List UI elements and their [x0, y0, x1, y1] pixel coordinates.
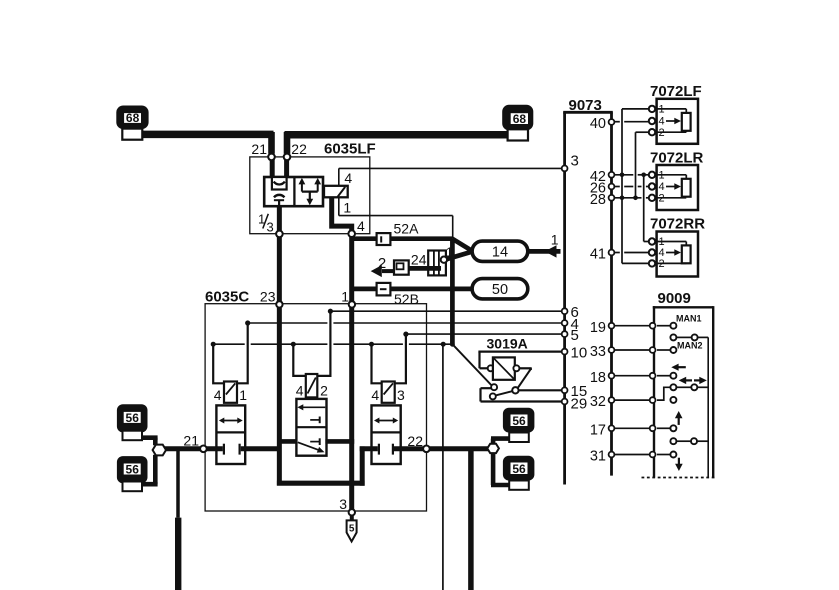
pill 14	[472, 241, 528, 261]
svg-text:MAN2: MAN2	[677, 341, 703, 351]
junction dots 42/28	[620, 173, 646, 201]
wire 26 to 7072LR pin4	[614, 186, 649, 188]
relay 3019A	[452, 336, 561, 402]
9073 pin 15	[562, 383, 587, 400]
arrow 1 (right of pill 14)	[528, 232, 561, 258]
svg-text:23: 23	[260, 289, 276, 305]
valve V2 body	[296, 399, 326, 456]
9009 common row 387	[670, 384, 708, 390]
svg-text:1: 1	[239, 387, 247, 403]
Y split to pill 14	[445, 239, 473, 260]
svg-text:21: 21	[183, 432, 199, 448]
wire 68L to node 21	[142, 132, 273, 154]
svg-text:4: 4	[296, 383, 304, 399]
9073 pin 41	[590, 247, 615, 263]
main bus V3 to right hex	[394, 446, 489, 451]
svg-text:17: 17	[590, 422, 606, 438]
9073 pin 3	[562, 153, 579, 172]
wire to pin 5 (y334)	[406, 333, 562, 335]
svg-text:14: 14	[492, 245, 508, 261]
box 6035C	[205, 289, 427, 512]
svg-text:4: 4	[659, 116, 665, 128]
thick vertical node1/3 to node 23	[277, 237, 282, 301]
svg-text:56: 56	[512, 462, 526, 476]
sensor 7072LF	[649, 83, 702, 144]
svg-text:6035C: 6035C	[205, 289, 249, 306]
svg-text:22: 22	[291, 141, 307, 157]
sensor 7072LR	[649, 150, 704, 211]
svg-text:6035LF: 6035LF	[324, 141, 376, 158]
wire to pin 6 (y311)	[330, 310, 561, 312]
exhaust arrow 5	[347, 516, 357, 542]
9009 common row 441	[670, 438, 708, 444]
svg-text:4: 4	[357, 218, 365, 234]
wire common y344	[213, 343, 452, 345]
svg-text:50: 50	[492, 282, 508, 298]
9009 double arrows row 380	[679, 377, 707, 384]
svg-text:56: 56	[126, 411, 140, 425]
9009 row 17	[614, 425, 676, 431]
thick vertical node4 down through node1 to node3	[349, 237, 354, 509]
node 22 (bus)	[407, 433, 429, 452]
svg-text:1: 1	[446, 245, 453, 260]
56 right elbows	[491, 439, 510, 485]
9073 pin 19	[590, 320, 615, 336]
svg-text:32: 32	[590, 394, 606, 410]
svg-text:5: 5	[349, 524, 355, 535]
9009 row 32 with jog	[614, 387, 676, 403]
wire to pin 4 (y323)	[248, 322, 562, 324]
wire contact pin1 to node 4	[332, 197, 352, 231]
wire node22 to pressure switch	[284, 159, 289, 178]
bus 52A	[352, 221, 453, 246]
plug connector	[394, 260, 409, 274]
box 6035LF	[250, 141, 376, 234]
svg-text:40: 40	[590, 116, 606, 132]
svg-text:4: 4	[371, 387, 379, 403]
9009 row 33 / MAN2	[614, 341, 702, 354]
connector 68 (left)	[116, 106, 148, 140]
wire 28 to 7072LR pin2	[614, 197, 649, 199]
valve V3 seat ticks	[379, 444, 393, 455]
9073 pin 10	[562, 344, 587, 361]
svg-text:4: 4	[344, 170, 352, 186]
valve2 feed left y441	[277, 439, 298, 444]
connector 56 right bottom	[503, 456, 535, 490]
junction dots at 3019A arm	[441, 342, 455, 347]
svg-text:24: 24	[411, 251, 427, 267]
svg-text:3: 3	[571, 153, 579, 170]
9073 pin 5	[562, 327, 579, 344]
wire 24 to plug	[409, 266, 441, 271]
wire 42 to 7072LR pin1	[614, 174, 649, 176]
9009 common row 337	[670, 334, 708, 340]
9009 row 19 / MAN1	[614, 314, 701, 329]
svg-text:28: 28	[590, 192, 606, 208]
connector 68 (right)	[502, 105, 533, 141]
svg-text:1: 1	[341, 289, 349, 305]
bus x362 riser	[360, 446, 365, 485]
9073 pin 33	[590, 344, 615, 360]
svg-text:3: 3	[397, 387, 405, 403]
svg-text:MAN1: MAN1	[676, 314, 702, 324]
svg-text:41: 41	[590, 247, 606, 263]
node 1 (6035C top)	[341, 289, 355, 308]
9073 pin 31	[590, 449, 615, 465]
svg-text:56: 56	[512, 414, 526, 428]
hex node left	[153, 445, 166, 456]
switch unit 9009 box	[642, 290, 715, 478]
9073 pin 6	[562, 304, 579, 321]
9009 left arrow above row 18	[671, 364, 686, 371]
valve2 out right y441	[325, 439, 354, 444]
9073 pin 28	[590, 192, 615, 208]
9073 pin 32	[590, 394, 615, 410]
9009 down arrow below row 31	[675, 458, 683, 471]
pill 50	[472, 279, 528, 299]
9073 pin 29	[562, 395, 587, 412]
main bus V1 to left drop vertical	[241, 446, 278, 451]
relay armature	[324, 186, 348, 198]
valve V1 seat ticks	[224, 444, 240, 455]
node 21 (bus)	[183, 432, 206, 452]
svg-text:2: 2	[378, 255, 386, 272]
valve V2 pilot wiring	[291, 309, 333, 376]
thick vertical Y to 3019A junction	[450, 240, 455, 343]
actuator arrows inside 6035LF	[299, 178, 322, 205]
node 4	[348, 218, 365, 237]
valve V3 body	[372, 405, 401, 464]
svg-text:7072RR: 7072RR	[650, 216, 705, 233]
svg-text:31: 31	[590, 449, 606, 465]
node 23	[260, 289, 283, 308]
svg-text:2: 2	[320, 383, 328, 399]
svg-text:56: 56	[126, 463, 140, 477]
connector 56 left bottom	[117, 456, 148, 491]
svg-text:22: 22	[407, 433, 423, 449]
pin 1 of 24	[441, 245, 453, 263]
svg-text:1: 1	[343, 200, 351, 216]
9073 pin 17	[590, 422, 615, 438]
branch vertical x635.5	[636, 132, 649, 198]
wire 40 to 7072LF pin4	[614, 121, 649, 123]
thick drop right x471	[468, 451, 474, 590]
svg-text:68: 68	[513, 112, 527, 126]
svg-text:1: 1	[551, 232, 559, 248]
svg-text:19: 19	[590, 320, 606, 336]
svg-text:52A: 52A	[394, 221, 420, 237]
9073 pin 42	[590, 169, 615, 185]
arrow 2 (left of plug)	[371, 255, 394, 277]
valve V1 pilot wiring	[211, 320, 251, 383]
svg-text:52B: 52B	[394, 291, 419, 307]
branch vertical x643.7	[644, 175, 649, 242]
valve V3 pilot wiring	[369, 332, 409, 384]
thin vertical x443	[442, 344, 444, 590]
svg-text:3: 3	[267, 220, 274, 235]
9073 pin 40	[590, 116, 615, 132]
thick vertical from switch to node 1/3	[277, 206, 282, 231]
svg-text:3019A: 3019A	[487, 336, 528, 352]
9073 pin 26	[590, 181, 615, 197]
svg-text:7072LF: 7072LF	[650, 83, 702, 100]
connector 56 left top	[117, 404, 148, 440]
svg-text:4: 4	[214, 387, 222, 403]
component 24	[411, 251, 446, 276]
svg-text:4: 4	[659, 181, 665, 193]
svg-text:33: 33	[590, 344, 606, 360]
node 3 (6035C bottom)	[339, 496, 355, 516]
node 22	[284, 154, 291, 161]
connector 56 right top	[503, 408, 535, 442]
9009 up arrow above row 17	[675, 411, 683, 425]
svg-text:21: 21	[251, 141, 267, 157]
svg-text:9009: 9009	[658, 290, 691, 307]
wire 41 to 7072RR pin4	[614, 252, 649, 254]
pressure switch 6035LF	[264, 177, 323, 206]
valve V3 pilot	[371, 382, 405, 404]
node 21	[268, 154, 275, 161]
left U vertical continues (node23 drop)	[277, 308, 282, 486]
sensor 7072RR	[649, 216, 705, 277]
svg-text:3: 3	[339, 496, 347, 512]
U bottom	[277, 481, 365, 486]
9073 pin 4	[562, 316, 579, 333]
9073 pin 18	[590, 370, 615, 386]
svg-text:10: 10	[571, 344, 588, 361]
svg-text:68: 68	[126, 111, 140, 125]
svg-text:29: 29	[571, 395, 588, 412]
valve V1 body	[216, 405, 245, 464]
hex node right	[487, 444, 499, 453]
bus 52B	[352, 283, 473, 307]
valve V1 pilot	[214, 382, 248, 404]
main bus y449 left	[164, 446, 223, 451]
svg-text:18: 18	[590, 370, 606, 386]
thick drop left x180	[176, 451, 180, 590]
relay contact box 4/1	[339, 168, 562, 238]
wire node21 to pressure switch	[270, 159, 275, 178]
9073 connector ladder	[563, 97, 613, 485]
valve V2 pilot	[296, 374, 328, 399]
9009 row 18	[614, 373, 676, 379]
node 1/3	[258, 212, 283, 238]
9009 row 31	[614, 452, 676, 458]
wire 68R to node 22	[285, 132, 508, 154]
main bus to valve V3	[360, 446, 378, 451]
branch vertical x622	[622, 109, 649, 264]
56 left elbows	[139, 438, 158, 485]
svg-text:5: 5	[571, 327, 579, 344]
